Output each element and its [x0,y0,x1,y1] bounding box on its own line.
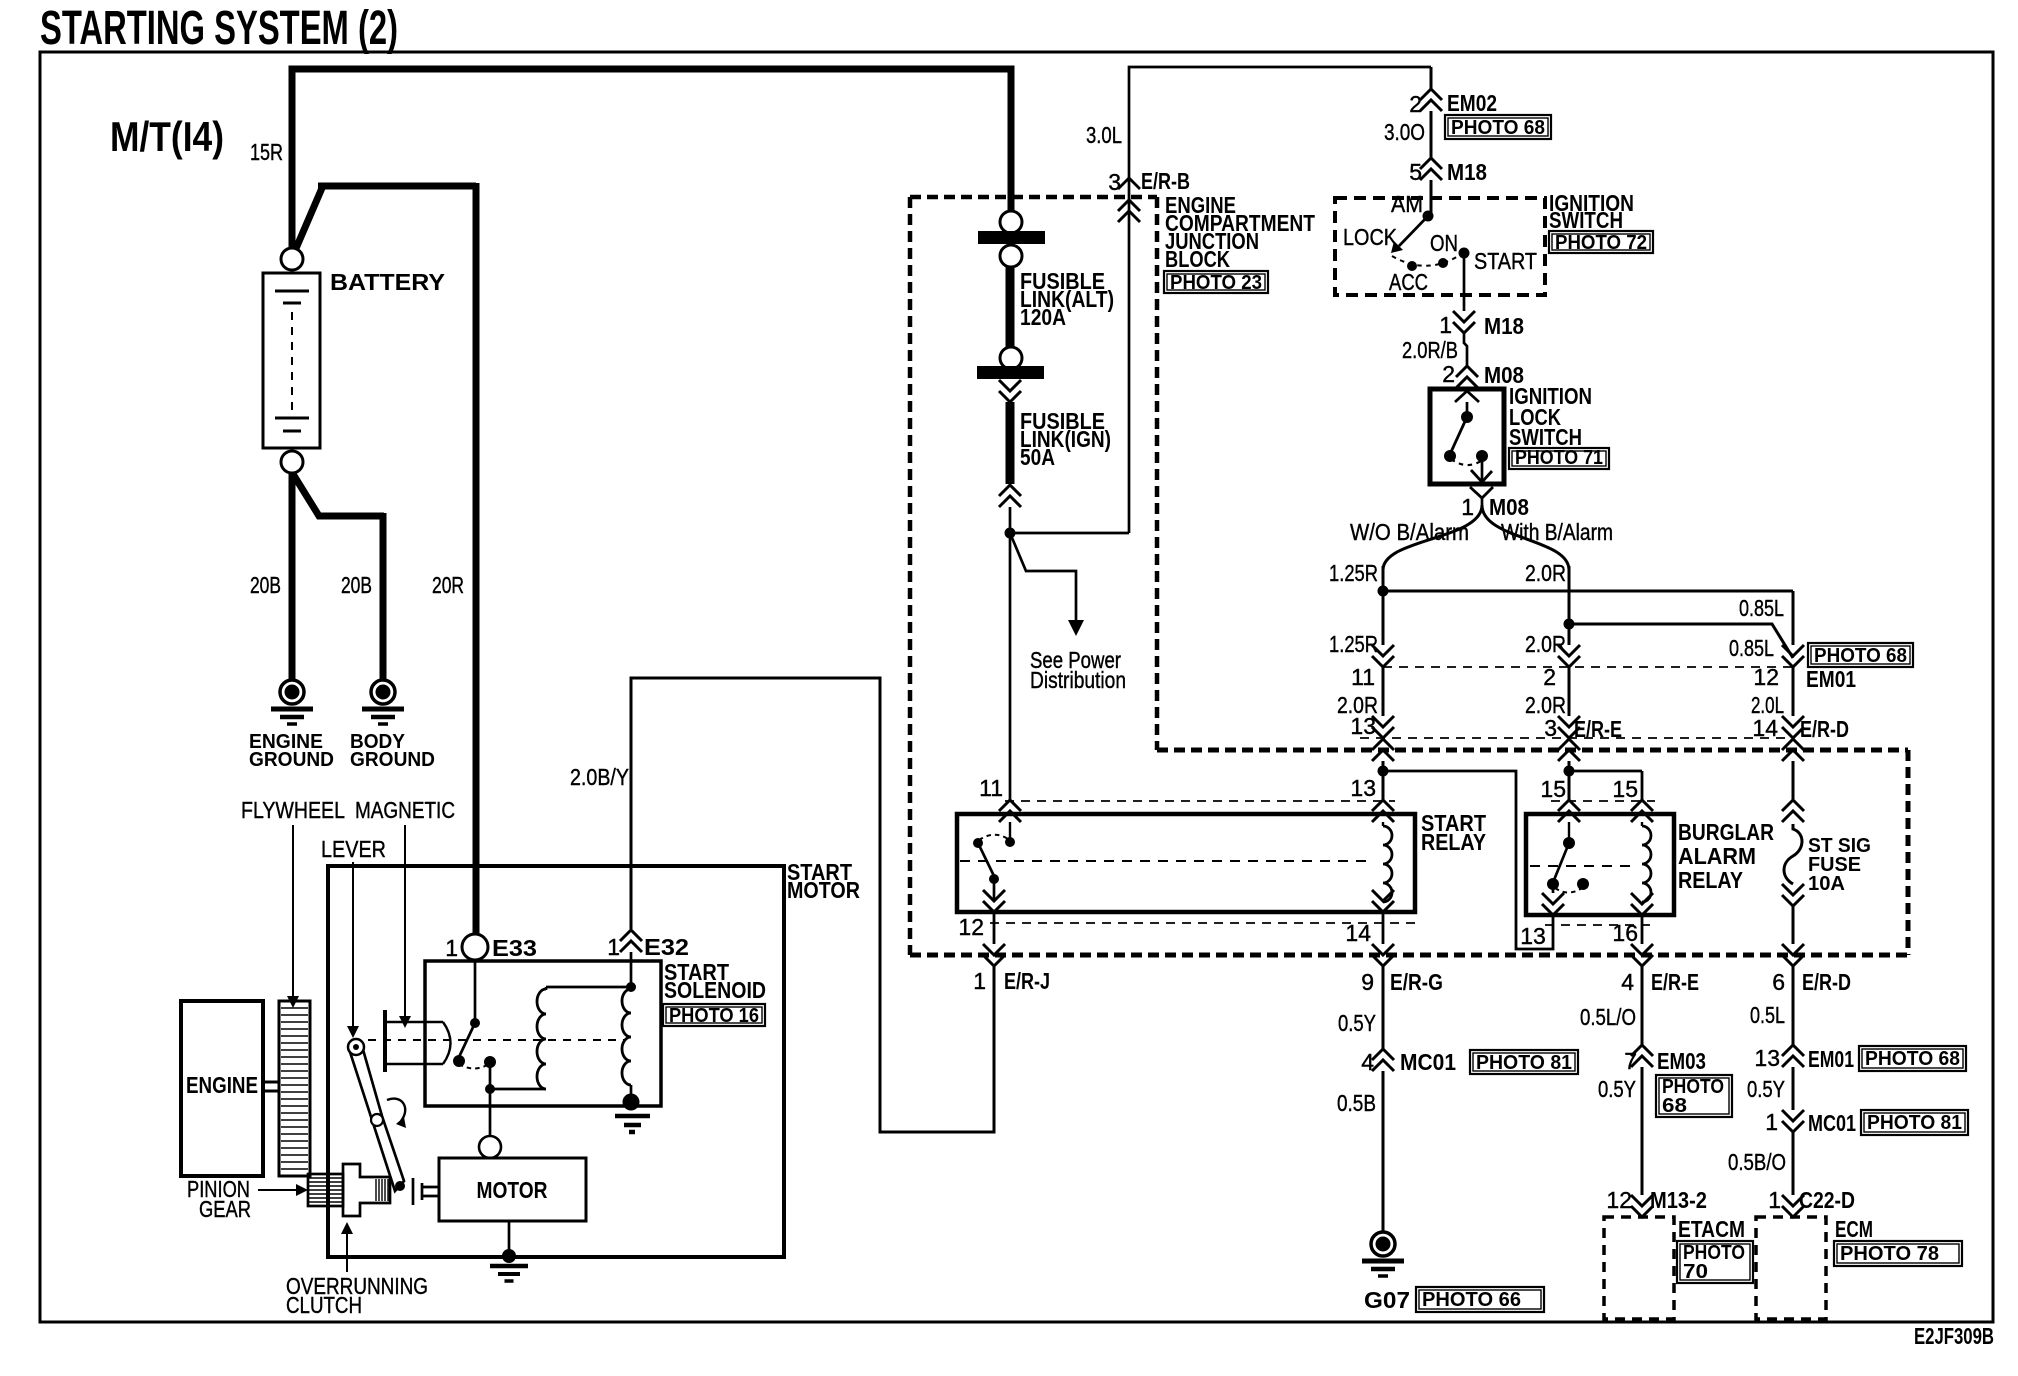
svg-text:BLOCK: BLOCK [1165,246,1230,272]
svg-text:12: 12 [1753,664,1779,690]
svg-text:E/R-E: E/R-E [1651,969,1699,995]
svg-text:M/T(I4): M/T(I4) [110,113,224,160]
svg-text:PHOTO 81: PHOTO 81 [1867,1112,1962,1134]
svg-text:2: 2 [1409,91,1422,117]
svg-text:EM01: EM01 [1806,666,1856,692]
svg-text:1: 1 [1439,312,1452,338]
svg-text:E/R-D: E/R-D [1800,716,1849,742]
svg-text:1: 1 [1461,494,1474,520]
svg-text:2.0B/Y: 2.0B/Y [570,764,629,790]
svg-text:ALARM: ALARM [1678,843,1756,869]
svg-text:AM: AM [1391,191,1423,217]
svg-text:GROUND: GROUND [350,749,435,771]
svg-text:13: 13 [1520,923,1546,949]
svg-text:ACC: ACC [1389,269,1428,295]
svg-text:LOCK: LOCK [1343,224,1398,250]
svg-text:3.0O: 3.0O [1384,119,1425,145]
svg-text:1: 1 [445,935,458,961]
svg-text:PHOTO 16: PHOTO 16 [669,1005,759,1027]
svg-text:E33: E33 [492,935,537,961]
svg-text:MC01: MC01 [1400,1049,1456,1075]
svg-text:11: 11 [979,775,1003,801]
svg-text:ECM: ECM [1835,1216,1873,1242]
svg-text:20R: 20R [432,572,464,598]
svg-text:0.5L/O: 0.5L/O [1580,1004,1636,1030]
svg-text:GEAR: GEAR [199,1196,251,1222]
svg-text:MOTOR: MOTOR [787,877,860,903]
svg-text:68: 68 [1662,1095,1687,1117]
svg-text:MOTOR: MOTOR [477,1177,548,1203]
svg-text:FLYWHEEL: FLYWHEEL [241,797,345,823]
svg-text:GROUND: GROUND [249,749,334,771]
svg-text:13: 13 [1754,1045,1780,1071]
svg-text:E/R-E: E/R-E [1574,716,1622,742]
svg-text:E/R-B: E/R-B [1141,168,1190,194]
svg-text:0.5B: 0.5B [1337,1090,1376,1116]
svg-text:2: 2 [1442,361,1455,387]
svg-text:6: 6 [1772,969,1785,995]
svg-text:14: 14 [1345,920,1371,946]
svg-text:M13-2: M13-2 [1650,1187,1707,1213]
svg-text:ETACM: ETACM [1678,1216,1745,1242]
svg-text:PHOTO 72: PHOTO 72 [1555,232,1647,254]
svg-text:EM03: EM03 [1657,1048,1706,1074]
svg-text:15R: 15R [250,139,283,165]
svg-text:M08: M08 [1489,494,1529,520]
svg-text:2.0R: 2.0R [1525,560,1566,586]
svg-text:START: START [1474,248,1537,274]
svg-text:E/R-J: E/R-J [1004,968,1050,994]
svg-text:BURGLAR: BURGLAR [1678,819,1774,845]
svg-text:PHOTO 68: PHOTO 68 [1814,645,1907,667]
svg-text:11: 11 [1351,664,1375,690]
svg-text:M18: M18 [1447,159,1487,185]
svg-text:15: 15 [1612,776,1638,802]
svg-text:0.5L: 0.5L [1750,1002,1785,1028]
svg-text:1: 1 [1765,1109,1778,1135]
svg-text:BATTERY: BATTERY [330,269,445,295]
svg-text:50A: 50A [1020,444,1055,470]
svg-text:3.0L: 3.0L [1086,122,1122,148]
svg-text:SWITCH: SWITCH [1549,207,1623,233]
svg-text:120A: 120A [1020,304,1066,330]
svg-text:Distribution: Distribution [1030,667,1126,693]
svg-text:0.5B/O: 0.5B/O [1728,1149,1786,1175]
svg-text:70: 70 [1683,1261,1708,1283]
svg-text:SOLENOID: SOLENOID [664,977,766,1003]
svg-text:12: 12 [958,914,984,940]
svg-text:2.0R: 2.0R [1525,631,1566,657]
svg-text:2: 2 [1543,664,1556,690]
svg-text:PHOTO 23: PHOTO 23 [1170,272,1262,294]
svg-text:STARTING SYSTEM (2): STARTING SYSTEM (2) [40,2,398,55]
svg-text:5: 5 [1409,159,1422,185]
svg-text:E2JF309B: E2JF309B [1914,1323,1994,1349]
svg-text:RELAY: RELAY [1678,867,1743,893]
svg-text:13: 13 [1350,713,1376,739]
svg-text:20B: 20B [250,572,281,598]
svg-text:PHOTO 68: PHOTO 68 [1451,117,1545,139]
svg-text:4: 4 [1361,1049,1374,1075]
svg-text:LEVER: LEVER [321,836,386,862]
svg-text:M18: M18 [1484,313,1524,339]
svg-text:0.5Y: 0.5Y [1598,1076,1636,1102]
svg-text:CLUTCH: CLUTCH [286,1292,362,1318]
svg-text:7: 7 [1624,1048,1637,1074]
svg-text:EM01: EM01 [1808,1046,1854,1072]
svg-text:1: 1 [607,934,620,960]
svg-text:3: 3 [1544,715,1557,741]
svg-text:E32: E32 [644,934,689,960]
svg-text:4: 4 [1621,969,1634,995]
svg-text:16: 16 [1612,920,1638,946]
svg-text:MC01: MC01 [1808,1110,1856,1136]
svg-text:G07: G07 [1364,1287,1410,1313]
svg-text:1.25R: 1.25R [1329,631,1378,657]
svg-text:ON: ON [1430,230,1458,256]
svg-text:RELAY: RELAY [1421,829,1486,855]
svg-text:12: 12 [1606,1187,1632,1213]
svg-text:PHOTO 68: PHOTO 68 [1865,1048,1960,1070]
svg-text:PHOTO 78: PHOTO 78 [1840,1243,1939,1265]
svg-text:15: 15 [1540,776,1566,802]
svg-text:With B/Alarm: With B/Alarm [1501,519,1613,545]
svg-text:2.0R/B: 2.0R/B [1402,337,1458,363]
svg-text:10A: 10A [1808,873,1845,895]
svg-text:3: 3 [1108,169,1121,195]
svg-text:0.85L: 0.85L [1739,595,1784,621]
svg-text:0.5Y: 0.5Y [1338,1010,1376,1036]
svg-text:PHOTO 81: PHOTO 81 [1476,1052,1572,1074]
svg-text:0.5Y: 0.5Y [1747,1076,1785,1102]
svg-text:14: 14 [1752,715,1778,741]
svg-text:C22-D: C22-D [1799,1187,1855,1213]
svg-text:20B: 20B [341,572,372,598]
svg-text:0.85L: 0.85L [1729,635,1774,661]
svg-text:13: 13 [1350,775,1376,801]
svg-text:E/R-G: E/R-G [1390,969,1443,995]
svg-text:E/R-D: E/R-D [1802,969,1851,995]
svg-text:9: 9 [1361,969,1374,995]
svg-text:1: 1 [973,968,986,994]
svg-text:ENGINE: ENGINE [186,1072,258,1098]
svg-text:MAGNETIC: MAGNETIC [355,797,455,823]
svg-text:1: 1 [1768,1187,1781,1213]
svg-text:1.25R: 1.25R [1329,560,1378,586]
svg-text:W/O B/Alarm: W/O B/Alarm [1350,519,1469,545]
svg-text:PHOTO 71: PHOTO 71 [1515,447,1603,469]
svg-text:EM02: EM02 [1447,90,1497,116]
svg-text:PHOTO 66: PHOTO 66 [1422,1289,1521,1311]
